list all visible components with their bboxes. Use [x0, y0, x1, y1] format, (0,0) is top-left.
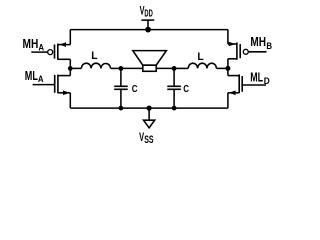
label MHB [250, 35, 272, 51]
wire node A to inductor L left [70, 67, 81, 69]
wire capacitor C left to VSS rail [120, 89, 122, 108]
junction dot C right on VSS rail [172, 106, 177, 111]
svg-text:L: L [197, 51, 204, 63]
transistor MHA (PMOS high-side A) [31, 42, 70, 60]
wire MLA drain to node A [69, 68, 71, 75]
label MLA [25, 69, 44, 84]
svg-text:A: A [38, 74, 44, 84]
wire node C-left to speaker [121, 67, 143, 69]
wire MLD source to VSS rail [227, 93, 229, 108]
transistor MLD (NMOS low-side B) [228, 74, 266, 95]
node B junction dot [225, 66, 230, 71]
svg-text:C: C [132, 84, 138, 95]
transistor MHB (PMOS high-side B) [228, 42, 267, 60]
supply VSS terminal [144, 108, 155, 128]
wire MHB drain to node B [227, 59, 229, 69]
wire speaker to node C-right [156, 67, 174, 69]
supply VDD terminal [141, 20, 154, 30]
wire node C-right to inductor L right [174, 67, 188, 69]
wire MHA source to VDD rail [69, 30, 71, 45]
label VDD [140, 5, 153, 19]
power rail VDD (top) [70, 29, 228, 31]
svg-text:C: C [183, 84, 189, 95]
wire MHB source to VDD rail [227, 30, 229, 44]
svg-text:A: A [38, 42, 44, 52]
svg-text:D: D [264, 76, 270, 86]
wire capacitor C right to VSS rail [173, 89, 175, 108]
svg-text:SS: SS [144, 134, 153, 146]
svg-text:L: L [91, 50, 98, 62]
junction dot VSS tap [147, 106, 152, 111]
junction dot VDD tap [145, 27, 151, 33]
label MHA [23, 37, 45, 52]
wire node to capacitor C right [173, 68, 175, 86]
svg-text:ML: ML [25, 69, 38, 83]
wire MHA drain to node A [69, 59, 71, 68]
wire MLA source to VSS rail [69, 93, 71, 108]
svg-text:B: B [266, 41, 272, 51]
capacitor C (right) [167, 86, 181, 89]
wire inductor right to node B [216, 67, 228, 69]
speaker [133, 51, 167, 72]
wire node B to MLD drain [227, 68, 229, 75]
label VSS [139, 132, 153, 146]
node C-right junction dot [172, 66, 177, 71]
node C-left junction dot [119, 66, 124, 71]
wire inductor to node C left [111, 67, 121, 69]
power rail VSS (bottom) [70, 107, 228, 109]
svg-text:ML: ML [250, 71, 263, 85]
inductor L (right) [188, 63, 216, 68]
svg-text:MH: MH [23, 37, 39, 51]
junction dot C left on VSS rail [119, 106, 124, 111]
capacitor C (left) [114, 86, 128, 89]
node A junction dot [68, 66, 73, 71]
wire node to capacitor C left [120, 68, 122, 86]
inductor L (left) [81, 63, 110, 68]
svg-text:MH: MH [250, 35, 266, 49]
transistor MLA (NMOS low-side A) [33, 75, 71, 96]
svg-text:DD: DD [144, 8, 153, 20]
label MLD [250, 71, 270, 87]
